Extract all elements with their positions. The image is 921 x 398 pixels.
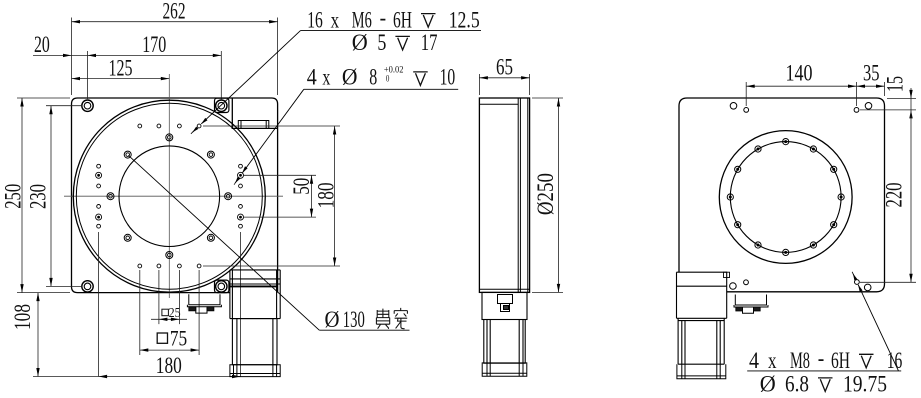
side motor coupler	[498, 295, 513, 312]
front vertical centerline	[168, 74, 170, 298]
dimension 250	[21, 98, 23, 293]
dimension sq25 extension lines	[158, 270, 160, 324]
side view internal vertical edges	[518, 98, 528, 292]
rear M8 hole M4	[855, 280, 860, 285]
svg-text:170: 170	[142, 32, 166, 57]
front motor flange	[230, 270, 280, 319]
svg-text:16: 16	[307, 7, 323, 32]
right column hole 1	[239, 164, 243, 168]
dimension sq75	[140, 349, 199, 351]
svg-text:8: 8	[369, 64, 377, 89]
dimension 170	[213, 54, 222, 57]
svg-text:x: x	[322, 64, 330, 89]
svg-text:220: 220	[882, 183, 907, 208]
front view housing plate outline	[72, 98, 278, 293]
rear bolt hole R7	[783, 249, 789, 255]
svg-text:180: 180	[156, 353, 182, 378]
front view connector box top-right	[232, 98, 277, 128]
side motor flange	[482, 292, 527, 319]
svg-text:108: 108	[10, 304, 35, 330]
svg-text:-: -	[818, 346, 825, 371]
side motor body	[484, 320, 525, 364]
dimension 125	[72, 78, 170, 80]
rear connector dark terminals	[736, 307, 743, 311]
dimension 230 extension lines	[46, 105, 81, 107]
dimension 140	[746, 85, 856, 87]
bottom row hole U4	[197, 264, 201, 268]
top row hole T3	[178, 124, 182, 128]
svg-text:25: 25	[169, 306, 181, 321]
rear bolt hole R3	[735, 166, 741, 172]
right column hole 5	[238, 214, 244, 220]
svg-text:15: 15	[883, 76, 908, 92]
rear motor flange notch	[724, 272, 730, 277]
note 16 x M6 - 6H depth 12.5	[301, 30, 482, 32]
svg-text:230: 230	[26, 184, 51, 209]
bottom row hole U3	[178, 264, 182, 268]
bolt hole B6 on front bolt circle	[124, 234, 131, 241]
dimension D250 extension lines	[532, 97, 563, 99]
rear view plate outline	[679, 98, 885, 292]
leader for 4xD8 note	[242, 89, 303, 173]
top row hole T4	[197, 124, 201, 128]
svg-text:19.75: 19.75	[843, 372, 887, 397]
front connector dark terminals	[189, 307, 196, 311]
svg-text:75: 75	[170, 325, 187, 350]
note 4 x M8 - 6H depth 16	[747, 370, 901, 372]
rear corner through hole P3	[730, 283, 737, 290]
top row hole T1	[138, 124, 142, 128]
dimension 65	[479, 77, 529, 79]
rear M8 hole M1	[744, 108, 749, 113]
svg-text:Ø: Ø	[325, 307, 340, 332]
dimension 180 bottom extension lines	[98, 232, 100, 377]
front connector block below plate	[187, 294, 221, 313]
rotary table rim inner circle	[76, 103, 262, 289]
left column hole 2	[96, 172, 102, 178]
rear bolt hole R11	[831, 166, 837, 172]
right column hole 4	[239, 205, 243, 209]
rear corner through hole P4	[864, 284, 871, 291]
bolt hole B3 on front bolt circle	[166, 134, 173, 141]
diagonal leader line for D130 label	[128, 155, 319, 330]
leader for 4xM8 note	[858, 285, 898, 371]
side view body outline	[479, 98, 529, 292]
svg-text:65: 65	[496, 54, 513, 79]
left column hole 3	[97, 184, 101, 188]
rear motor flange	[677, 272, 727, 318]
svg-text:35: 35	[863, 60, 880, 85]
front motor body	[232, 319, 277, 365]
left column hole 4	[97, 205, 101, 209]
rear connector block	[734, 295, 768, 314]
dimension sq25	[151, 318, 187, 320]
bolt hole B4 on front bolt circle	[124, 151, 131, 158]
rear bolt hole R9	[831, 222, 837, 228]
rear bearing inner circle	[730, 142, 841, 253]
rear bolt hole R12	[810, 146, 816, 152]
rear corner through hole P1	[730, 103, 737, 110]
rear bolt hole R5	[735, 222, 741, 228]
dimension D250	[558, 98, 560, 292]
left column hole 6	[97, 224, 101, 228]
svg-text:Ø: Ø	[342, 64, 358, 89]
svg-text:180: 180	[313, 182, 338, 208]
svg-text:20: 20	[34, 32, 50, 57]
dimension 250 extension lines	[17, 97, 70, 99]
pad around top-right corner screw	[215, 98, 229, 112]
rear bolt hole R2	[755, 146, 761, 152]
rear bolt hole R4	[727, 194, 733, 200]
svg-text:125: 125	[109, 55, 133, 80]
svg-text:Ø: Ø	[352, 30, 368, 55]
rear bolt hole R6	[755, 242, 761, 248]
dimension 20	[33, 54, 221, 56]
svg-text:4: 4	[749, 348, 759, 373]
svg-text:5: 5	[377, 30, 386, 55]
corner screw hole S2	[216, 100, 227, 111]
dimension 180 bottom	[33, 376, 241, 378]
chinese char guan	[376, 309, 389, 329]
dimension 50	[311, 175, 313, 217]
dimension 220	[910, 110, 912, 282]
svg-text:Ø: Ø	[760, 372, 776, 397]
rear bolt hole R1	[783, 139, 789, 145]
dimension 220 extension line	[860, 281, 916, 283]
dimension 50 extension lines	[244, 174, 316, 176]
svg-text:6H: 6H	[831, 348, 850, 373]
front horizontal centerline	[64, 195, 283, 197]
top row hole T2	[157, 124, 161, 128]
dimension 35	[857, 85, 885, 87]
right column hole 6	[239, 224, 243, 228]
dimension sq75 extension lines	[139, 270, 141, 355]
rear motor bottom cap	[677, 364, 726, 379]
rear bolt hole R10	[838, 194, 844, 200]
svg-text:130: 130	[343, 307, 365, 332]
svg-text:50: 50	[289, 178, 314, 195]
front motor bottom cap	[230, 365, 280, 377]
svg-text:x: x	[768, 348, 777, 373]
dimension 140 extension lines	[745, 82, 747, 106]
dimension 180 right extension lines	[203, 125, 340, 127]
note 4 x dia8 +0.02/0 depth 10	[304, 88, 458, 90]
dimension 108	[37, 293, 39, 377]
right column hole 2	[238, 172, 244, 178]
bottom row hole U2	[157, 264, 161, 268]
square symbol for sq25	[162, 309, 169, 316]
svg-text:250: 250	[0, 184, 25, 209]
svg-text:-: -	[380, 5, 387, 30]
svg-text:16: 16	[887, 348, 903, 373]
svg-text:17: 17	[421, 30, 438, 55]
leader for 16xM6 note	[201, 31, 300, 124]
dimension 35 extension line	[884, 82, 886, 96]
svg-text:M8: M8	[790, 348, 810, 373]
corner screw hole S1	[82, 100, 93, 111]
dimension 180 right	[334, 126, 336, 266]
side view bottom plate line	[479, 288, 529, 290]
rear M8 hole M2	[854, 108, 859, 113]
central through hole circle (D130)	[119, 146, 220, 247]
bottom row hole U1	[138, 264, 142, 268]
pad around bottom-right corner screw	[215, 280, 229, 293]
dimension 262 extension lines	[71, 18, 73, 96]
bolt hole B8 on front bolt circle	[207, 234, 214, 241]
left column hole 5	[96, 214, 102, 220]
right column hole 3	[239, 184, 243, 188]
dimension 15	[910, 88, 912, 110]
svg-text:12.5: 12.5	[449, 7, 480, 32]
chinese char chuan	[394, 308, 407, 329]
rear bolt hole R8	[810, 242, 816, 248]
dimension 262	[72, 21, 278, 23]
groove line at screw row bottom right	[229, 285, 278, 287]
svg-text:6.8: 6.8	[785, 372, 809, 397]
square symbol for sq75	[157, 333, 167, 343]
bolt hole B5 on front bolt circle	[107, 193, 114, 200]
side motor bottom cap	[482, 363, 527, 376]
rear M8 hole M3	[744, 280, 749, 285]
rear motor body	[678, 318, 724, 364]
bolt hole B7 on front bolt circle	[166, 252, 173, 259]
svg-text:6H: 6H	[393, 7, 412, 32]
left column hole 1	[97, 164, 101, 168]
svg-text:x: x	[331, 7, 340, 32]
dimension 65 extension lines	[478, 74, 480, 95]
svg-text:0: 0	[386, 74, 390, 84]
svg-text:Ø250: Ø250	[533, 173, 558, 215]
rear corner through hole P2	[865, 103, 872, 110]
svg-text:10: 10	[440, 64, 456, 89]
svg-text:262: 262	[163, 0, 186, 24]
front view connector tab	[238, 121, 268, 129]
svg-text:140: 140	[786, 60, 813, 85]
dimension 15 extension lines	[887, 97, 916, 99]
bolt hole B2 on front bolt circle	[207, 151, 214, 158]
bolt hole B1 on front bolt circle	[225, 193, 232, 200]
side motor coupler tick	[504, 306, 509, 310]
corner screw hole S3	[82, 281, 93, 292]
dimension 230	[50, 106, 52, 287]
svg-text:4: 4	[307, 64, 317, 89]
rear bearing outer circle	[719, 131, 852, 264]
rotary table outer circle	[73, 100, 265, 292]
note D130 through	[319, 329, 409, 331]
svg-text:M6: M6	[352, 7, 372, 32]
corner screw hole S4	[216, 281, 227, 292]
dimension 170 and 20 extension lines	[87, 51, 89, 99]
side view top plate line	[479, 103, 518, 105]
